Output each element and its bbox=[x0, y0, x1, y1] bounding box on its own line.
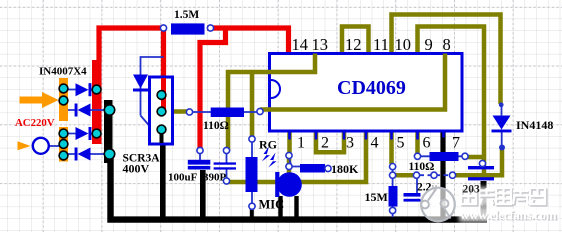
node pin5 lower bbox=[390, 172, 396, 178]
MIC body circle bbox=[277, 172, 302, 197]
cyan dots on black bus bbox=[104, 105, 114, 159]
svg-text:7: 7 bbox=[452, 135, 460, 152]
wire IN4148 anode thin blue bbox=[501, 104, 503, 116]
node dashed row c bbox=[449, 172, 455, 178]
capacitor 390P plates bbox=[214, 162, 236, 164]
resistor 180K bbox=[300, 164, 325, 173]
IC pin stubs bottom edge bbox=[290, 131, 444, 140]
red bus bar of bridge rectifier bbox=[92, 60, 102, 144]
black negative bus bar of bridge rectifier bbox=[104, 100, 113, 163]
node dashed row b bbox=[431, 172, 437, 178]
thin blue wire pin1 node to 180K bbox=[289, 158, 300, 167]
svg-text:400V: 400V bbox=[123, 162, 150, 176]
node 180K right bbox=[325, 165, 331, 171]
node 110ohm right / pin8 bbox=[257, 108, 263, 114]
node 15M bottom bbox=[390, 207, 396, 213]
junction dot IN4148 anode bbox=[499, 102, 504, 107]
red anode line inside SCR bbox=[161, 78, 166, 112]
photoresistor RG body bbox=[246, 157, 258, 192]
svg-text:5: 5 bbox=[397, 135, 405, 152]
wire 203 cap to ground corner (black) bbox=[481, 181, 487, 220]
orange AC input arrow 1 bbox=[20, 92, 59, 108]
svg-text:1: 1 bbox=[297, 135, 305, 152]
resistor 110ohm-2 bbox=[430, 152, 459, 161]
trigger diac bbox=[133, 75, 148, 92]
svg-text:1.5M: 1.5M bbox=[174, 9, 199, 21]
svg-text:13: 13 bbox=[312, 35, 329, 54]
wire SCR cathode to ground (black) bbox=[160, 134, 166, 217]
thin blue wires bridge diodes rows bbox=[68, 90, 105, 155]
olive loop pin9 down right side to 110ohm-2 right node bbox=[418, 27, 485, 175]
node 110ohm-2 left bbox=[414, 153, 420, 159]
dashed blue wire row bbox=[420, 174, 451, 176]
svg-text:11: 11 bbox=[373, 35, 389, 54]
resistor 15M bbox=[389, 186, 398, 207]
node dashed row a bbox=[413, 172, 419, 178]
wire RG bottom to ground (black stub) bbox=[250, 209, 254, 218]
node SCR gate bbox=[186, 109, 192, 115]
node RG top bbox=[249, 136, 255, 142]
black cathode line inside SCR bbox=[160, 129, 164, 143]
wire top positive rail (red) bbox=[99, 28, 164, 63]
thin blue wire diac to red branch bbox=[141, 57, 164, 116]
svg-text:6: 6 bbox=[423, 135, 431, 152]
pin numbers bottom row bbox=[297, 135, 460, 152]
olive net pin8 across IC to 110ohm right node bbox=[260, 54, 445, 110]
olive loop pin10 to IN4148 anode bbox=[392, 15, 501, 105]
node pin5 upper bbox=[390, 164, 396, 170]
olive net pin13 inside IC bbox=[240, 54, 315, 73]
SCR body box bbox=[150, 77, 173, 144]
svg-text:RG: RG bbox=[259, 138, 277, 152]
wire pin7 to ground (black) bbox=[440, 131, 445, 217]
orange AC bus bar top bbox=[59, 78, 68, 121]
svg-text:100uF: 100uF bbox=[168, 172, 198, 184]
node 390P bottom bbox=[223, 178, 229, 184]
thin blue wire 2.2u cap top bbox=[416, 178, 418, 194]
capacitor 203 plates bbox=[468, 166, 494, 169]
svg-text:180K: 180K bbox=[331, 162, 359, 176]
svg-text:390P: 390P bbox=[203, 172, 227, 184]
svg-text:10: 10 bbox=[395, 35, 412, 54]
thin blue diagonal diac to SCR gate bbox=[141, 116, 151, 127]
svg-text:2: 2 bbox=[321, 135, 329, 152]
svg-text:12: 12 bbox=[345, 35, 362, 54]
thin blue wire IN4148 cathode down bbox=[501, 132, 503, 148]
RG lightning symbol bbox=[262, 147, 270, 162]
olive wire SCR gate to 110ohm bbox=[173, 109, 190, 114]
olive net pin13 outer part to 390P and RG bbox=[228, 72, 252, 151]
wire MIC leg right (black) bbox=[294, 196, 298, 217]
diode D3 of bridge bbox=[76, 127, 92, 140]
svg-text:CD4069: CD4069 bbox=[337, 77, 406, 99]
IC notch bbox=[271, 80, 280, 98]
svg-text:14: 14 bbox=[292, 35, 309, 54]
svg-text:3: 3 bbox=[346, 135, 354, 152]
wire 100uF minus to ground (black) bbox=[200, 170, 206, 217]
watermark logo circle bbox=[421, 188, 455, 222]
thin blue wire 100uF top bbox=[199, 153, 201, 160]
olive U loop pin2 to pin3 bbox=[316, 131, 344, 152]
olive pin1 leg bbox=[287, 131, 292, 153]
svg-text:15M: 15M bbox=[365, 190, 388, 204]
orange AC input arrow 2 bbox=[18, 141, 31, 150]
svg-text:110Ω: 110Ω bbox=[409, 161, 435, 173]
node 100uF top bbox=[197, 147, 203, 153]
junction dot IN4148 cathode bbox=[499, 145, 505, 151]
olive wire pin4 down and left row to MIC bbox=[301, 131, 366, 182]
svg-text:IN4007X4: IN4007X4 bbox=[39, 66, 87, 78]
svg-text:203: 203 bbox=[463, 184, 481, 196]
wire 1.5M right to IC pin 14 (red) bbox=[207, 28, 289, 54]
olive loop pin12 to pin11 bbox=[342, 27, 369, 54]
node pin1 upper bbox=[286, 152, 292, 158]
capacitor 100uF plates bbox=[188, 160, 211, 165]
olive wire 390P bottom node to MIC bar bbox=[227, 180, 277, 185]
cyan junction dots on orange bars bbox=[59, 84, 68, 160]
wire step branch down to 100uF node (red) bbox=[200, 26, 226, 151]
AC source circle bbox=[33, 138, 49, 154]
resistor 1.5M bbox=[171, 23, 205, 34]
thin blue wire AC source circle to bridge bbox=[49, 145, 59, 147]
olive pin5 leg bbox=[389, 131, 394, 164]
svg-text:8: 8 bbox=[443, 35, 451, 54]
olive pin6 leg bbox=[415, 131, 420, 154]
diode D1 of bridge bbox=[76, 83, 92, 96]
node 390P top bbox=[223, 147, 229, 153]
svg-text:MIC: MIC bbox=[259, 198, 285, 212]
svg-text:AC220V: AC220V bbox=[15, 117, 55, 129]
node right of 1.5M bbox=[207, 25, 213, 31]
MIC electret bar bbox=[275, 172, 279, 197]
wire MIC leg left (black) bbox=[278, 196, 282, 217]
thin blue wires RG bbox=[251, 141, 253, 204]
olive stub pin1 node to MIC top bbox=[287, 156, 292, 173]
orange AC bus bar bottom bbox=[59, 127, 68, 162]
thin blue wires 390P bbox=[226, 153, 228, 179]
node left of 1.5M bbox=[160, 25, 166, 31]
capacitor 2.2u plates bbox=[404, 193, 421, 197]
ground rail wire (black) bbox=[111, 158, 488, 220]
pin numbers top row bbox=[292, 35, 451, 54]
node 110ohm-2 right bbox=[462, 153, 468, 159]
diode D2 of bridge bbox=[75, 104, 91, 117]
thin blue wires 15M column bbox=[392, 169, 394, 217]
diode IN4148 bbox=[492, 116, 512, 133]
svg-text:9: 9 bbox=[425, 35, 433, 54]
node pin1 lower bbox=[286, 163, 292, 169]
wire 1.5M left node down to SCR anode (red) bbox=[161, 26, 166, 113]
svg-text:4: 4 bbox=[371, 135, 379, 152]
watermark chinese text bbox=[459, 187, 559, 222]
cyan dots on red bus bbox=[92, 85, 101, 138]
node 203 top bbox=[479, 160, 485, 166]
thin blue wire 203 node stub bbox=[482, 165, 484, 167]
IC CD4069 body bbox=[270, 54, 463, 132]
olive right row through 203 to IN4148 cathode bbox=[395, 148, 503, 178]
thin blue wires 110ohm-2 row bbox=[420, 155, 463, 157]
resistor 110ohm gate bbox=[211, 108, 244, 118]
diode D4 of bridge bbox=[75, 148, 91, 161]
svg-text:IN4148: IN4148 bbox=[516, 118, 553, 132]
svg-text:110Ω: 110Ω bbox=[203, 120, 229, 132]
thin blue wires 110ohm-1 row bbox=[192, 111, 258, 113]
svg-text:www.elecfans.com: www.elecfans.com bbox=[460, 207, 557, 222]
node RG bottom bbox=[249, 203, 255, 209]
cyan dots on SCR bbox=[157, 91, 166, 134]
